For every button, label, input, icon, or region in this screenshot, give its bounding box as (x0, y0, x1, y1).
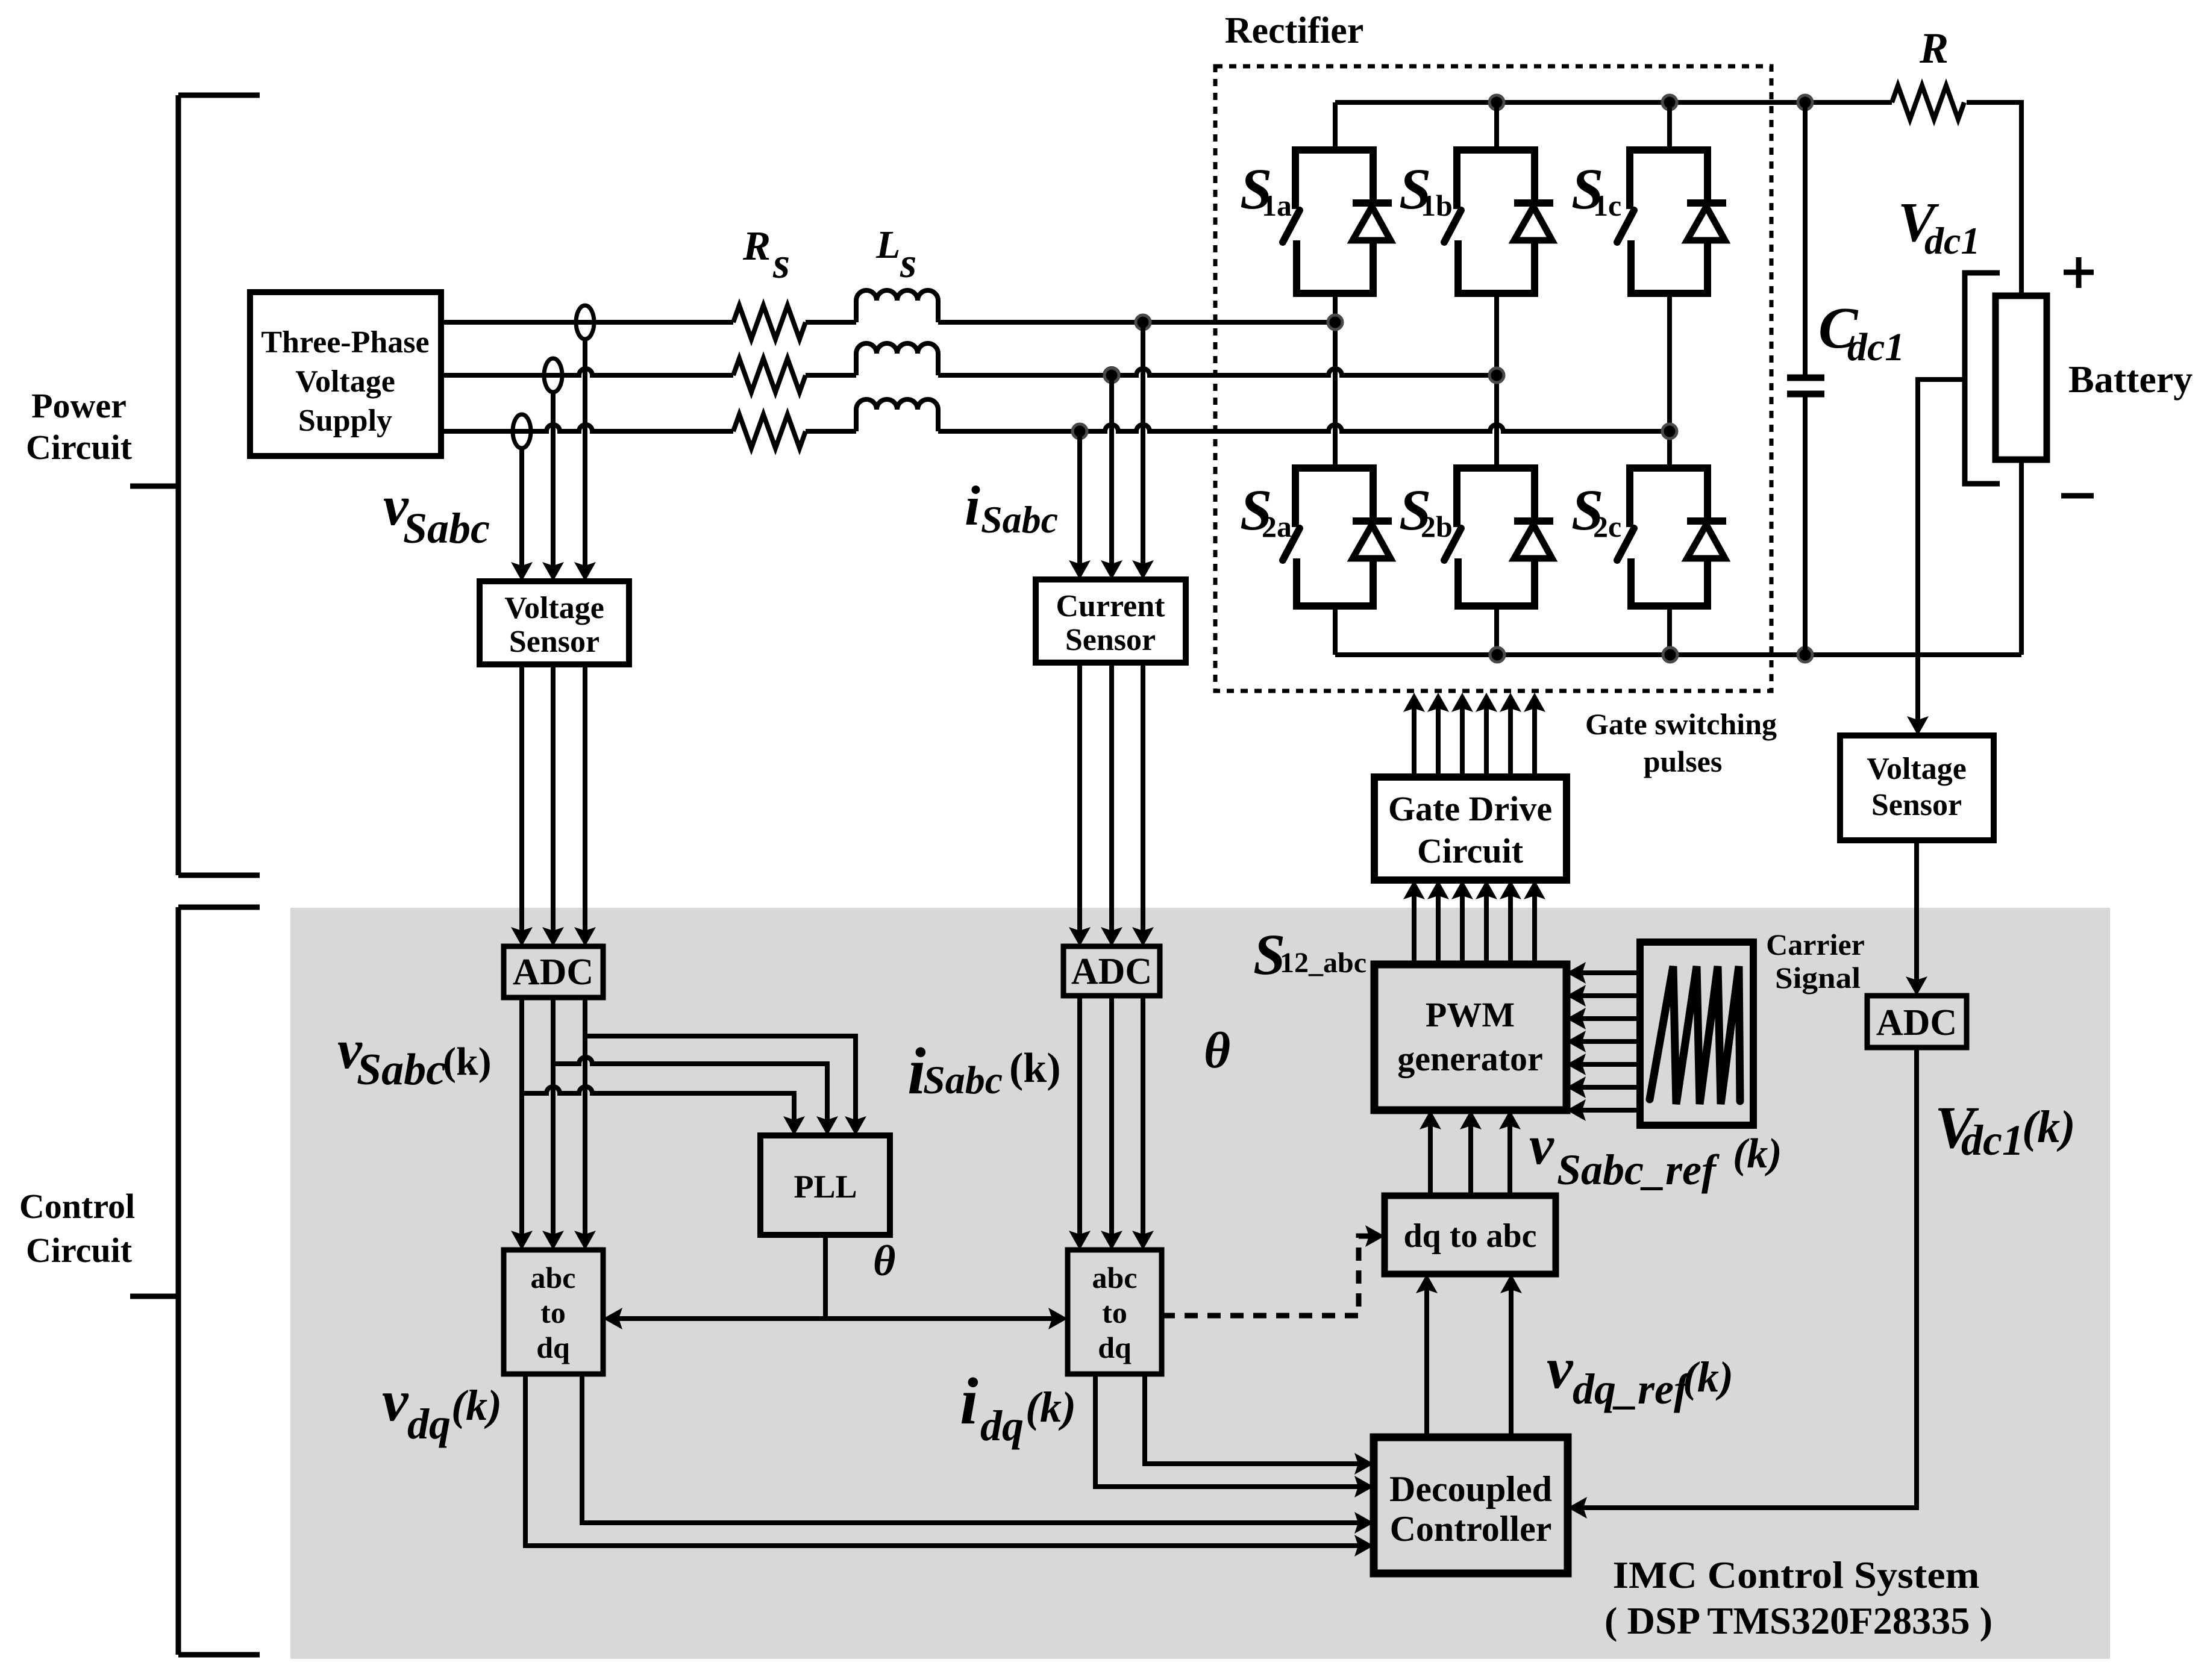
label + (2064, 257, 2094, 288)
svg-text:v: v (382, 1369, 409, 1434)
svg-text:Sensor: Sensor (1871, 788, 1962, 822)
wire top DC bus (1335, 100, 1892, 105)
svg-text:generator: generator (1397, 1039, 1543, 1078)
node current tap phase C (1072, 424, 1087, 439)
Vdc1 measurement bracket (1965, 273, 2000, 484)
wire leg b upper (1494, 102, 1499, 154)
wire leg c upper (1667, 102, 1672, 154)
wire current sensor to ADC x3 (1080, 663, 1143, 942)
switch S2a (1295, 464, 1373, 610)
svg-text:Three-Phase: Three-Phase (261, 325, 429, 360)
svg-text:2a: 2a (1262, 510, 1292, 543)
wire voltage sensor to ADC (1914, 840, 1919, 988)
wire ADC to abc-to-dq (vc) (583, 998, 587, 1246)
wires carrier to PWM x7 (1574, 970, 1642, 975)
label - (2061, 493, 2094, 499)
wire iSa to current sensor (1141, 322, 1145, 575)
voltage tap ellipse phase C (513, 414, 531, 448)
wire branch va to PLL (585, 1036, 856, 1131)
svg-text:ADC: ADC (1876, 1002, 1957, 1043)
svg-text:abc: abc (1092, 1261, 1138, 1294)
svg-text:Control: Control (19, 1187, 135, 1226)
voltage tap ellipse phase B (544, 358, 562, 392)
block PWM generator (1374, 964, 1567, 1110)
wire iSb to current sensor (1109, 375, 1114, 575)
svg-text:i: i (960, 1364, 978, 1438)
svg-text:abc: abc (531, 1261, 576, 1294)
svg-text:Sensor: Sensor (1065, 623, 1156, 657)
wire leg c lower (1667, 606, 1672, 655)
wire phase C from supply (441, 425, 733, 431)
wire ADC to abc-to-dq (va) (519, 998, 524, 1246)
svg-text:Gate switching: Gate switching (1585, 707, 1777, 741)
svg-text:θ: θ (873, 1237, 895, 1285)
wire leg b middle (1494, 293, 1499, 468)
node bottom bus leg c (1663, 648, 1677, 662)
block abc to dq (current) (1068, 1250, 1162, 1374)
svg-text:Sabc: Sabc (923, 1058, 1003, 1102)
svg-text:R: R (1919, 24, 1949, 72)
svg-text:dq: dq (407, 1400, 451, 1448)
svg-text:PWM: PWM (1426, 995, 1515, 1034)
resistor R (DC link) (1892, 86, 1964, 119)
wire idq d to Decoupled Controller (1145, 1374, 1368, 1464)
svg-text:Voltage: Voltage (295, 364, 395, 399)
block ADC (DC voltage) (1867, 996, 1967, 1048)
wire idq q to Decoupled Controller (1095, 1374, 1368, 1487)
switch S1b (1457, 146, 1535, 297)
switch S2b (1457, 464, 1535, 610)
block dq to abc (1385, 1196, 1556, 1274)
wire bottom DC bus (1335, 652, 2021, 657)
wires PWM generator to Gate Drive x6 (1412, 887, 1417, 964)
wire ADC to abc-to-dq (vb) (551, 998, 556, 1246)
wire vSb to voltage sensor (551, 392, 556, 577)
svg-text:θ: θ (1204, 1022, 1230, 1079)
svg-text:dc1: dc1 (1847, 325, 1905, 369)
node current tap phase A (1136, 315, 1150, 329)
svg-text:Decoupled: Decoupled (1389, 1469, 1552, 1509)
wire PLL output theta (823, 1235, 828, 1319)
wire battery minus to bottom bus (2019, 460, 2024, 655)
block PLL (760, 1135, 890, 1235)
block Voltage Sensor (source) (480, 581, 629, 664)
wire ADC to abc-to-dq (ic) (1141, 996, 1145, 1246)
carrier triangle waveform (1650, 966, 1740, 1104)
block Current Sensor (1036, 579, 1186, 663)
svg-text:Voltage: Voltage (504, 591, 604, 625)
bracket Power Circuit (130, 95, 260, 875)
node leg a phase junction (1328, 315, 1342, 329)
svg-text:s: s (900, 240, 916, 287)
svg-text:Current: Current (1056, 589, 1165, 623)
block Carrier Signal generator (1640, 942, 1753, 1125)
svg-text:(k): (k) (451, 1381, 502, 1429)
switch S1a (1295, 146, 1373, 297)
wire dq-to-abc to PWM a (1428, 1116, 1433, 1196)
wire phase B from supply (441, 369, 733, 375)
svg-text:(k): (k) (2022, 1102, 2076, 1152)
svg-text:v: v (1529, 1114, 1554, 1176)
wire R to battery plus (1967, 102, 2021, 296)
wire phase A from supply (441, 320, 733, 325)
svg-text:(k): (k) (1009, 1045, 1061, 1091)
node bottom bus Cdc1 (1798, 648, 1812, 662)
wire vSa to voltage sensor (583, 339, 587, 577)
wire dq-to-abc to PWM b (1468, 1116, 1473, 1196)
wire Cdc1 top (1803, 102, 1808, 378)
svg-text:Sabc_ref: Sabc_ref (1557, 1146, 1720, 1194)
wire iSc to current sensor (1077, 431, 1082, 575)
svg-text:2b: 2b (1421, 510, 1453, 543)
node current tap phase B (1104, 368, 1119, 383)
svg-text:to: to (540, 1296, 566, 1329)
svg-text:L: L (875, 223, 900, 267)
wire theta to abc-to-dq blocks (609, 1316, 1062, 1321)
wire Decoupled to dq-to-abc (d) (1424, 1280, 1429, 1437)
svg-text:Gate Drive: Gate Drive (1388, 789, 1552, 828)
svg-text:12_abc: 12_abc (1280, 947, 1366, 979)
rectifier dashed boundary (1215, 66, 1771, 691)
svg-text:Circuit: Circuit (26, 1231, 133, 1270)
wire phase A to rectifier leg a (938, 320, 1335, 325)
block Gate Drive Circuit (1374, 777, 1567, 880)
wire Vdc1 tap to voltage sensor (1918, 379, 1965, 729)
svg-text:s: s (772, 239, 790, 287)
svg-text:Sabc: Sabc (981, 498, 1058, 541)
inductor Ls phase A (856, 290, 938, 322)
capacitor Cdc1 (1787, 375, 1824, 381)
svg-text:Controller: Controller (1390, 1509, 1552, 1549)
svg-text:Battery: Battery (2068, 358, 2193, 401)
svg-text:to: to (1102, 1296, 1127, 1329)
svg-text:Voltage: Voltage (1867, 752, 1967, 786)
svg-text:dq: dq (1098, 1331, 1132, 1364)
svg-text:dq: dq (980, 1402, 1024, 1450)
wire phase B to rectifier leg b (938, 369, 1497, 375)
wire vdq q to Decoupled Controller (525, 1374, 1368, 1546)
svg-text:Circuit: Circuit (26, 428, 133, 467)
svg-text:i: i (965, 475, 980, 537)
resistor Rs phase A (733, 305, 806, 339)
wire leg c middle (1667, 293, 1672, 468)
block abc to dq (voltage) (504, 1250, 603, 1374)
wire vSc to voltage sensor (519, 448, 524, 577)
svg-text:Circuit: Circuit (1417, 831, 1524, 870)
block Three-Phase Voltage Supply (250, 292, 441, 456)
wire leg a lower (1333, 606, 1338, 655)
wire ADC to abc-to-dq (ia) (1077, 996, 1082, 1246)
svg-text:(k): (k) (443, 1040, 492, 1084)
wire dq-to-abc to PWM c (1507, 1116, 1512, 1196)
svg-text:(k): (k) (1683, 1353, 1733, 1401)
wire (806, 429, 856, 434)
node bottom bus leg b (1490, 648, 1504, 662)
dashed wire theta to dq-to-abc (1162, 1236, 1377, 1316)
svg-text:Carrier: Carrier (1766, 928, 1865, 961)
switch S2c (1630, 464, 1708, 610)
block Decoupled Controller (1374, 1437, 1568, 1573)
svg-text:Supply: Supply (298, 404, 392, 438)
svg-text:dc1: dc1 (1924, 219, 1980, 262)
voltage tap ellipse phase A (576, 305, 594, 339)
block ADC (voltage) (504, 946, 603, 998)
node top bus leg b (1489, 95, 1504, 110)
svg-text:dc1: dc1 (1961, 1116, 2024, 1164)
svg-text:Signal: Signal (1775, 961, 1861, 995)
node top bus Cdc1 (1798, 95, 1812, 110)
node top bus leg c (1662, 95, 1677, 110)
wire Vdc1(k) feedback to Decoupled Controller (1574, 1048, 1917, 1508)
switch S1c (1630, 146, 1708, 297)
svg-text:2c: 2c (1593, 510, 1621, 543)
svg-text:Sensor: Sensor (509, 625, 599, 659)
block ADC (current) (1063, 946, 1160, 996)
wire leg a middle (1333, 293, 1338, 468)
node leg c phase junction (1662, 424, 1677, 439)
svg-text:Sabc: Sabc (357, 1045, 446, 1094)
wire branch vb to PLL (553, 1057, 827, 1131)
svg-text:ADC: ADC (1071, 951, 1152, 992)
wire leg b lower (1494, 606, 1499, 655)
bracket Control Circuit (130, 907, 260, 1655)
wire branch vc to PLL (522, 1087, 794, 1131)
wire Cdc1 bottom (1803, 394, 1808, 655)
battery cell rectangle (1996, 296, 2047, 460)
svg-text:Sabc: Sabc (403, 504, 490, 552)
inductor Ls phase B (856, 343, 938, 375)
inductor Ls phase C (856, 399, 938, 431)
svg-text:PLL: PLL (794, 1169, 857, 1205)
block Voltage Sensor (DC link) (1840, 735, 1994, 840)
svg-text:1c: 1c (1593, 189, 1621, 222)
svg-text:Power: Power (31, 386, 127, 425)
svg-text:(k): (k) (1025, 1383, 1076, 1431)
svg-text:dq: dq (536, 1331, 570, 1364)
svg-text:IMC Control System: IMC Control System (1613, 1554, 1980, 1596)
wires Gate Drive to rectifier switches x6 (1412, 700, 1417, 777)
node leg b phase junction (1489, 368, 1504, 383)
wire phase C to rectifier leg c (938, 425, 1670, 431)
svg-text:1a: 1a (1262, 189, 1292, 222)
svg-text:ADC: ADC (513, 952, 593, 993)
svg-text:pulses: pulses (1644, 745, 1723, 778)
svg-text:dq to abc: dq to abc (1404, 1217, 1537, 1255)
wire vdq d to Decoupled Controller (582, 1374, 1368, 1523)
svg-text:( DSP TMS320F28335 ): ( DSP TMS320F28335 ) (1604, 1599, 1993, 1642)
resistor Rs phase C (733, 414, 806, 448)
svg-text:(k): (k) (1733, 1131, 1782, 1177)
svg-text:v: v (1547, 1336, 1574, 1401)
svg-text:R: R (742, 223, 771, 269)
resistor Rs phase B (733, 358, 806, 392)
svg-text:Rectifier: Rectifier (1225, 10, 1364, 51)
wire leg a upper (1333, 102, 1338, 154)
grey background of control-circuit (DSP) region (290, 908, 2110, 1659)
wire voltage sensor to ADC x3 (522, 664, 585, 942)
wire ADC to abc-to-dq (ib) (1109, 996, 1114, 1246)
svg-text:1b: 1b (1421, 189, 1453, 222)
wire Decoupled to dq-to-abc (q) (1509, 1280, 1514, 1437)
wire (806, 320, 856, 325)
wire (806, 373, 856, 378)
svg-text:dq_ref: dq_ref (1573, 1365, 1692, 1413)
